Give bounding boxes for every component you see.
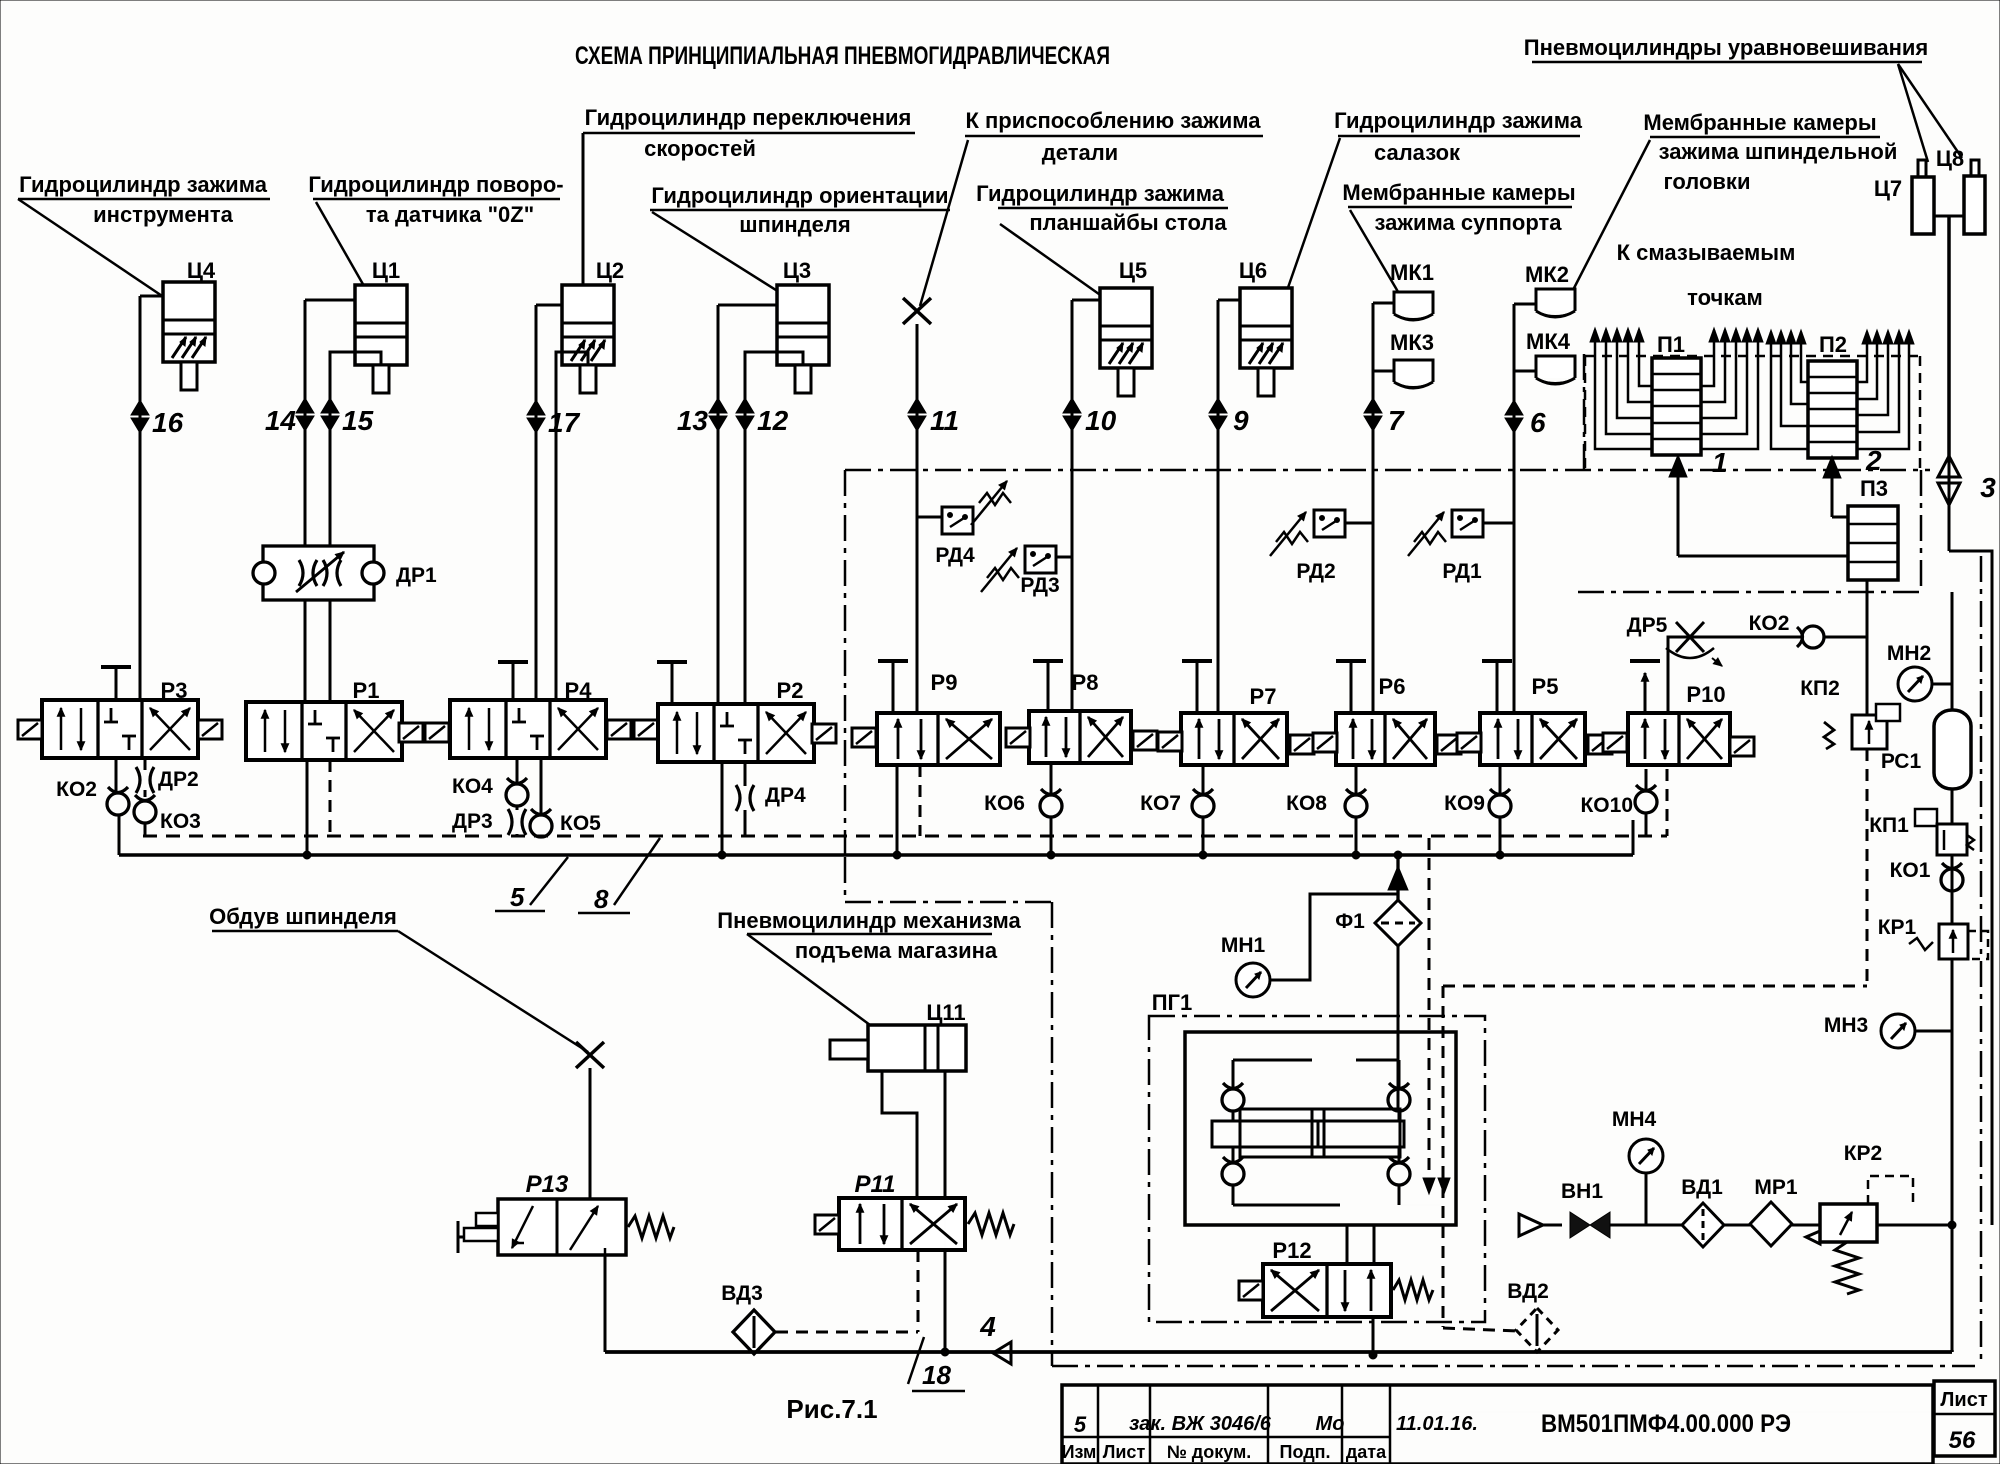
pressure switch РД1: [1408, 510, 1514, 583]
label ДР2: [158, 768, 199, 791]
svg-text:зажима шпиндельной: зажима шпиндельной: [1659, 139, 1898, 164]
dash-dot right boundary: [1980, 556, 1983, 1363]
wire 6 line (МК2/МК4 to Р5): [1514, 304, 1536, 713]
svg-text:МК3: МК3: [1390, 330, 1434, 355]
svg-text:КО5: КО5: [560, 812, 601, 835]
svg-text:Рис.7.1: Рис.7.1: [786, 1394, 877, 1424]
svg-text:зажима суппорта: зажима суппорта: [1375, 210, 1563, 235]
pilot valve КП1: [1869, 809, 1974, 855]
svg-text:Р12: Р12: [1272, 1238, 1311, 1263]
relief valve КП2: [1800, 677, 1900, 749]
reducing valve КР1: [1878, 916, 1988, 959]
valve Р6: [1313, 674, 1461, 765]
drain Р8 through КО6: [984, 763, 1062, 857]
svg-text:МН3: МН3: [1824, 1014, 1868, 1037]
drain Р2 dashed through ДР4: [736, 762, 806, 836]
valve Р13: [498, 1171, 674, 1255]
callout: мембранные камеры зажима шпиндельной головки: [1572, 110, 1897, 292]
wire 14 line (Ц1 left): [305, 300, 355, 702]
throttle ДР2 and КО3 branch: [136, 758, 154, 797]
booster cylinder assembly: [1212, 1109, 1404, 1157]
wire 16 line (Ц4 to Р3): [140, 296, 163, 699]
valve Р7: [1158, 684, 1314, 765]
svg-text:1: 1: [1712, 447, 1728, 478]
main vertical line right: [1951, 592, 1954, 1350]
svg-text:Пневмоцилиндры уравновешивания: Пневмоцилиндры уравновешивания: [1524, 35, 1928, 60]
check valve КО3: [134, 795, 201, 836]
svg-text:КО6: КО6: [984, 792, 1025, 815]
gauge МН4: [1612, 1108, 1663, 1225]
svg-text:Мо: Мо: [1316, 1413, 1345, 1435]
wire 9 line (Ц6 to Р7): [1218, 300, 1240, 713]
svg-text:подъема магазина: подъема магазина: [795, 938, 998, 963]
svg-text:Лист: Лист: [1103, 1442, 1146, 1462]
drain Р10 dashed: [1666, 769, 1669, 836]
boundary ПГ1 dash-dot box: [1149, 990, 1485, 1322]
svg-text:КО8: КО8: [1286, 792, 1327, 815]
drain Р7 through КО7: [1140, 765, 1214, 857]
svg-text:салазок: салазок: [1374, 140, 1461, 165]
port symbol 7: [1364, 398, 1405, 436]
wire Ц7-Ц8 to main: [1934, 216, 1964, 456]
cylinder Ц1: [355, 258, 407, 393]
check valve КО1: [1890, 859, 1963, 891]
wire Р11 right down: [944, 1198, 946, 1352]
filter ВД2 dashed: [1507, 1280, 1558, 1352]
svg-text:МН2: МН2: [1887, 642, 1931, 665]
callout: гидроцилиндр зажима салазок: [1283, 108, 1583, 302]
svg-text:Ф1: Ф1: [1335, 910, 1365, 933]
svg-text:Ц6: Ц6: [1239, 258, 1267, 283]
wire П2 supply elbow: [1832, 516, 1848, 519]
wire 11 line (detail clamp to Р9): [916, 324, 919, 713]
svg-text:Ц8: Ц8: [1936, 146, 1964, 171]
drain Р9 solid: [896, 765, 899, 857]
svg-text:П1: П1: [1657, 332, 1685, 357]
svg-text:2: 2: [1865, 445, 1882, 476]
callout: пневмоцилиндры уравновешивания: [1524, 35, 1962, 162]
port symbol 6: [1505, 400, 1546, 438]
svg-text:ВД1: ВД1: [1681, 1176, 1723, 1199]
drain Р3 left through КО2: [116, 758, 119, 855]
callout: мембранные камеры зажима суппорта: [1342, 180, 1575, 302]
svg-text:Р7: Р7: [1250, 684, 1277, 709]
svg-text:6: 6: [1530, 407, 1546, 438]
svg-text:ВН1: ВН1: [1561, 1180, 1603, 1203]
wire Р12 to bus: [1369, 1317, 1377, 1359]
wire Р11 dashed down: [776, 1250, 918, 1332]
svg-text:Гидроцилиндр ориентации: Гидроцилиндр ориентации: [651, 183, 948, 208]
svg-text:Гидроцилиндр поворо-: Гидроцилиндр поворо-: [308, 172, 563, 197]
svg-text:Р2: Р2: [777, 678, 804, 703]
booster outer box: [1185, 1032, 1456, 1225]
port symbol 16: [131, 400, 184, 438]
membrane chamber МК3: [1390, 330, 1434, 388]
svg-text:РД2: РД2: [1296, 560, 1335, 583]
port symbol 9: [1209, 398, 1249, 436]
port symbol 10: [1063, 398, 1117, 436]
tank symbol above Р5: [1482, 661, 1512, 713]
svg-text:14: 14: [265, 405, 297, 436]
tank symbol above Р9: [878, 661, 908, 713]
valve Р9: [852, 670, 1000, 765]
svg-text:Р5: Р5: [1532, 674, 1559, 699]
tank symbol above Р10 with up arrow: [1630, 661, 1660, 713]
supply arrow 2 to П2: [1823, 445, 1882, 517]
svg-text:Ц1: Ц1: [372, 258, 400, 283]
svg-text:Подп.: Подп.: [1280, 1442, 1331, 1462]
tank symbol above Р3: [101, 667, 131, 700]
svg-text:К приспособлению зажима: К приспособлению зажима: [965, 108, 1261, 133]
membrane chamber МК4: [1526, 329, 1575, 384]
svg-text:13: 13: [677, 405, 709, 436]
svg-text:Мембранные камеры: Мембранные камеры: [1342, 180, 1575, 205]
svg-text:дата: дата: [1346, 1442, 1387, 1462]
wire 17 line (Ц2 left): [536, 305, 562, 700]
svg-text:зак. ВЖ 3046/6: зак. ВЖ 3046/6: [1129, 1413, 1272, 1435]
svg-text:11.01.16.: 11.01.16.: [1396, 1413, 1478, 1435]
callout: гидроцилиндр зажима планшайбы стола: [976, 181, 1228, 304]
pressure switch РД3: [981, 546, 1072, 597]
svg-text:СХЕМА ПРИНЦИПИАЛЬНАЯ ПНЕВМОГИД: СХЕМА ПРИНЦИПИАЛЬНАЯ ПНЕВМОГИДРАВЛИЧЕСКА…: [575, 42, 1110, 70]
svg-text:Р10: Р10: [1686, 682, 1725, 707]
title block: [1062, 1385, 1933, 1464]
port symbol 14: [265, 398, 314, 436]
svg-text:Пневмоцилиндр механизма: Пневмоцилиндр механизма: [717, 908, 1021, 933]
port symbol 13: [677, 398, 727, 436]
callout: пневмоцилиндр механизма подъема магазина: [717, 908, 1021, 1025]
drain Р9 dashed: [919, 765, 922, 836]
sheet number box: [1934, 1381, 1995, 1456]
svg-text:7: 7: [1388, 405, 1405, 436]
wire КО2 to КП2: [1866, 637, 1869, 715]
valve Р2: [658, 678, 836, 762]
callout: гидроцилиндр переключения скоростей: [583, 105, 915, 296]
cylinder Ц8: [1936, 146, 1985, 234]
pressure switch РД2: [1270, 510, 1373, 583]
svg-text:КО4: КО4: [452, 775, 493, 798]
adjustable throttle ДР5: [1627, 614, 1722, 666]
drain Р6 through КО8: [1286, 765, 1367, 857]
callout: гидроцилиндр ориентации шпинделя: [650, 183, 950, 302]
dash-dot П1 left short: [1583, 354, 1586, 470]
closed port X mark 2: [576, 1042, 604, 1068]
svg-text:РС1: РС1: [1881, 750, 1922, 773]
port symbol 17: [527, 400, 581, 438]
dash-dot enclosure top: [845, 469, 1930, 472]
wire П3 down to КП2: [1866, 580, 1869, 715]
wire 13 line (Ц3 left): [718, 305, 777, 706]
svg-text:МК1: МК1: [1390, 260, 1434, 285]
svg-text:5: 5: [1074, 1412, 1087, 1437]
svg-text:4: 4: [979, 1311, 996, 1342]
svg-text:Мембранные камеры: Мембранные камеры: [1643, 110, 1876, 135]
svg-text:ВД2: ВД2: [1507, 1280, 1549, 1303]
supply arrow 1 to П1: [1669, 447, 1728, 556]
svg-text:Лист: Лист: [1940, 1389, 1987, 1411]
svg-text:11: 11: [930, 405, 959, 436]
svg-text:Обдув шпинделя: Обдув шпинделя: [209, 904, 397, 929]
label: к смазываемым точкам: [1617, 240, 1796, 310]
svg-text:МН1: МН1: [1221, 934, 1266, 957]
wire Ц2 bottom: [556, 352, 588, 700]
svg-text:9: 9: [1233, 405, 1249, 436]
wire Ф1 down: [1397, 946, 1400, 1109]
label 18 with leader: [908, 1337, 965, 1391]
svg-text:РД3: РД3: [1020, 574, 1059, 597]
svg-text:МК2: МК2: [1525, 262, 1569, 287]
svg-text:3: 3: [1980, 472, 1996, 503]
tank symbol above Р7: [1182, 661, 1212, 713]
svg-text:Р6: Р6: [1379, 674, 1406, 699]
svg-text:Р9: Р9: [931, 670, 958, 695]
svg-text:КО2: КО2: [1749, 612, 1790, 635]
label КО4: [452, 775, 493, 798]
label 8 with leader: [578, 838, 660, 914]
svg-text:16: 16: [152, 407, 184, 438]
svg-text:ВМ501ПМФ4.00.000 РЭ: ВМ501ПМФ4.00.000 РЭ: [1541, 1410, 1791, 1438]
svg-text:8: 8: [594, 884, 609, 914]
wire main air right edge: [1949, 551, 1992, 1225]
drain Р2 solid: [721, 762, 724, 857]
valve Р8: [1006, 670, 1157, 763]
svg-text:Изм: Изм: [1062, 1442, 1097, 1462]
drain Р10 through КО10: [1580, 769, 1657, 836]
dashed pilot bus: [143, 835, 1667, 838]
svg-text:детали: детали: [1042, 140, 1118, 165]
svg-text:Р13: Р13: [526, 1171, 569, 1198]
port symbol 15: [321, 398, 374, 436]
valve Р12: [1239, 1238, 1433, 1317]
drain Р5 through КО9: [1444, 765, 1511, 857]
lubricator П2: [1766, 330, 1914, 458]
wire Ц11 to Р11: [882, 1071, 945, 1198]
svg-text:КО7: КО7: [1140, 792, 1181, 815]
drain Р1 solid: [306, 760, 309, 857]
tank symbol above Р4: [498, 662, 528, 700]
cylinder Ц4: [163, 258, 216, 390]
svg-text:КО2: КО2: [56, 778, 97, 801]
cylinder Ц2: [562, 258, 624, 393]
callout: гидроцилиндр зажима инструмента: [18, 172, 270, 308]
svg-text:12: 12: [757, 405, 789, 436]
svg-text:Ц4: Ц4: [187, 258, 216, 283]
svg-text:17: 17: [548, 407, 581, 438]
svg-text:Р8: Р8: [1072, 670, 1099, 695]
svg-text:Гидроцилиндр зажима: Гидроцилиндр зажима: [1334, 108, 1583, 133]
svg-text:та датчика "0Z": та датчика "0Z": [366, 202, 534, 227]
check arrow into bus from Ф1: [1388, 857, 1408, 902]
callout: к приспособлению зажима детали: [920, 108, 1263, 306]
svg-text:Ц11: Ц11: [926, 1000, 965, 1025]
svg-text:КП2: КП2: [1800, 677, 1840, 700]
svg-text:56: 56: [1949, 1427, 1976, 1454]
valve Р11: [815, 1171, 1014, 1250]
cylinder Ц7: [1874, 160, 1934, 234]
wire ДР5 corner: [1668, 637, 1802, 713]
svg-text:Гидроцилиндр переключения: Гидроцилиндр переключения: [585, 105, 912, 130]
valve Р10: [1603, 682, 1754, 765]
svg-text:Р1: Р1: [353, 678, 380, 703]
svg-text:ВД3: ВД3: [721, 1282, 763, 1305]
svg-text:П3: П3: [1860, 476, 1888, 501]
label ДР3: [452, 810, 493, 833]
svg-text:18: 18: [922, 1360, 951, 1390]
shutoff valve ВН1: [1561, 1180, 1628, 1238]
svg-text:Ц2: Ц2: [596, 258, 624, 283]
svg-text:МК4: МК4: [1526, 329, 1571, 354]
cylinder Ц6: [1239, 258, 1292, 396]
svg-text:головки: головки: [1664, 169, 1751, 194]
regulator КР2: [1806, 1142, 1952, 1294]
svg-text:КО10: КО10: [1580, 794, 1633, 817]
svg-text:КП1: КП1: [1869, 814, 1909, 837]
wire Р13 to bus: [604, 1255, 607, 1352]
solid drain bus: [116, 820, 1633, 855]
dashed box around П1 П2: [1585, 356, 1920, 470]
svg-text:Ц7: Ц7: [1874, 176, 1902, 201]
filter ВД1: [1628, 1176, 1750, 1247]
valve Р5: [1457, 674, 1612, 765]
dashed pilot into booster: [1423, 838, 1435, 1194]
svg-text:Гидроцилиндр зажима: Гидроцилиндр зажима: [19, 172, 268, 197]
valve Р3: [18, 678, 222, 758]
svg-text:точкам: точкам: [1687, 285, 1763, 310]
svg-text:Гидроцилиндр зажима: Гидроцилиндр зажима: [976, 181, 1225, 206]
svg-text:ДР4: ДР4: [765, 784, 806, 807]
port symbol 3 (double hollow triangles): [1938, 456, 1996, 551]
svg-text:Ц3: Ц3: [783, 258, 811, 283]
pump П3: [1848, 476, 1898, 580]
svg-text:К смазываемым: К смазываемым: [1617, 240, 1796, 265]
svg-text:ДР1: ДР1: [396, 564, 437, 587]
tank symbol above Р2: [657, 662, 687, 704]
valve Р1: [246, 678, 449, 760]
gauge МН1: [1221, 894, 1398, 997]
dashed pilot to ВД2 region: [1438, 986, 1517, 1331]
svg-text:МН4: МН4: [1612, 1108, 1657, 1131]
port symbol 4 (left triangle): [979, 1311, 1011, 1364]
membrane chamber МК1: [1390, 260, 1434, 320]
lubricator МР1: [1750, 1176, 1820, 1246]
cylinder Ц5: [1100, 258, 1152, 396]
svg-text:Ц5: Ц5: [1119, 258, 1147, 283]
closed port X mark: [903, 298, 931, 324]
svg-text:ДР2: ДР2: [158, 768, 199, 791]
port symbol 12: [736, 398, 789, 436]
svg-text:МР1: МР1: [1754, 1176, 1798, 1199]
filter Ф1: [1335, 900, 1421, 946]
pressure switch РД4: [917, 481, 1011, 567]
booster internal wires: [1233, 1060, 1440, 1205]
wire X to Р13: [589, 1068, 592, 1199]
membrane chamber МК2: [1525, 262, 1575, 317]
svg-text:15: 15: [342, 405, 374, 436]
dashed pilot line from КП2 down: [1443, 749, 1867, 986]
port symbol 11: [908, 398, 959, 436]
lubricator П1: [1590, 328, 1763, 455]
filter ВД3: [721, 1282, 775, 1354]
callout: гидроцилиндр поворота датчика 0Z: [308, 172, 563, 300]
wire 12 line (Ц3 bottom): [745, 352, 803, 706]
manual actuator Р13: [458, 1213, 498, 1253]
wire 10 line (Ц5 to Р8): [1072, 300, 1100, 711]
wire П1 supply to П3: [1678, 555, 1848, 558]
svg-text:КО3: КО3: [160, 810, 201, 833]
svg-text:5: 5: [510, 882, 525, 912]
valve Р4: [450, 678, 658, 758]
air inlet triangle: [1519, 1214, 1562, 1236]
dash-dot enclosure bottom jog: [845, 857, 1975, 1366]
drain Р4 through КО4 ДР3: [506, 758, 528, 836]
svg-text:планшайбы стола: планшайбы стола: [1029, 210, 1227, 235]
svg-text:КР2: КР2: [1844, 1142, 1883, 1165]
check valve КО2: [56, 778, 129, 815]
drain Р4 through КО5: [530, 758, 601, 837]
label 5 with leader: [495, 857, 568, 912]
tank symbol above Р8: [1033, 661, 1063, 711]
cylinder Ц3: [777, 258, 829, 393]
svg-text:ДР5: ДР5: [1627, 614, 1668, 637]
gauge МН3: [1824, 1014, 1952, 1048]
svg-text:10: 10: [1085, 405, 1117, 436]
svg-text:КО1: КО1: [1890, 859, 1931, 882]
dash-dot П segment right: [1578, 470, 1921, 592]
svg-text:скоростей: скоростей: [644, 136, 756, 161]
svg-text:РД4: РД4: [935, 544, 975, 567]
accumulator РС1: [1881, 710, 1971, 789]
bottom air bus: [605, 1350, 1952, 1354]
callout: обдув шпинделя: [209, 904, 588, 1052]
frame bottom right: [1950, 1350, 1954, 1352]
svg-text:Р11: Р11: [855, 1171, 896, 1198]
svg-text:КР1: КР1: [1878, 916, 1917, 939]
dash-dot enclosure left: [844, 470, 847, 857]
svg-text:ДР3: ДР3: [452, 810, 493, 833]
drain Р1 dashed: [329, 760, 332, 836]
svg-text:инструмента: инструмента: [93, 202, 233, 227]
svg-text:шпинделя: шпинделя: [739, 212, 850, 237]
booster outlet wires to Р12: [1347, 1225, 1374, 1264]
booster check valves: [1222, 1083, 1410, 1185]
svg-text:П2: П2: [1819, 332, 1847, 357]
svg-text:КО9: КО9: [1444, 792, 1485, 815]
svg-text:РД1: РД1: [1442, 560, 1482, 583]
check valve КО2 right: [1749, 612, 1867, 648]
svg-text:№ докум.: № докум.: [1167, 1442, 1252, 1462]
gauge МН2: [1887, 642, 1952, 701]
wire 15 line (Ц1 bottom): [330, 352, 381, 702]
title text: [575, 42, 1110, 70]
svg-text:ПГ1: ПГ1: [1152, 990, 1193, 1015]
wire 7 line (МК1/МК3 to Р6): [1373, 303, 1394, 713]
cylinder Ц11: [830, 1000, 966, 1071]
tank symbol above Р6: [1336, 661, 1366, 713]
flow control ДР1: [253, 546, 437, 600]
figure caption: [786, 1394, 877, 1424]
